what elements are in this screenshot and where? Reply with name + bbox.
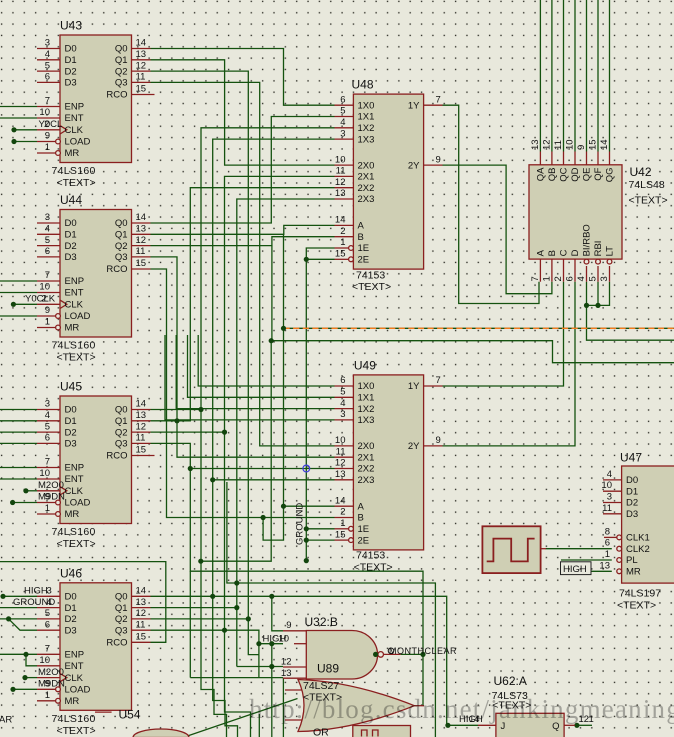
- svg-text:MR: MR: [65, 323, 80, 334]
- svg-text:CLK2: CLK2: [626, 544, 650, 555]
- svg-text:14: 14: [136, 399, 147, 410]
- svg-text:2: 2: [44, 119, 49, 130]
- svg-text:12: 12: [136, 421, 147, 432]
- svg-text:<TEXT>: <TEXT>: [629, 195, 668, 207]
- svg-text:6: 6: [340, 375, 345, 386]
- wire route to right edge: [201, 341, 674, 562]
- svg-text:13: 13: [530, 139, 541, 150]
- node pin9 tap dot: [269, 594, 274, 599]
- wire U48.2Y to U42.B: [443, 165, 552, 294]
- svg-text:6: 6: [605, 538, 610, 549]
- wire U48.2E: [306, 258, 334, 260]
- svg-text:MR: MR: [65, 696, 80, 707]
- svg-text:ENP: ENP: [65, 276, 85, 287]
- svg-text:MONTHCLEAR: MONTHCLEAR: [389, 646, 457, 656]
- svg-text:M2O0: M2O0: [38, 667, 64, 678]
- svg-text:ENP: ENP: [65, 650, 85, 661]
- svg-text:74LS160: 74LS160: [52, 340, 96, 352]
- svg-text:1Y: 1Y: [408, 100, 420, 111]
- wire diagonal to U89: [183, 699, 298, 737]
- svg-text:10: 10: [39, 107, 50, 118]
- wire U46.D3 diagonal: [9, 619, 37, 630]
- wire U42 BI/RBO RBI LT strap: [587, 282, 610, 306]
- node 583 row dot: [234, 580, 239, 585]
- node U45 LOAD dot: [10, 500, 15, 505]
- svg-text:<TEXT>: <TEXT>: [617, 600, 656, 612]
- svg-text:5: 5: [340, 106, 345, 117]
- svg-text:RCO: RCO: [106, 638, 127, 649]
- generator pulse box: [482, 526, 546, 573]
- svg-text:6: 6: [565, 276, 576, 281]
- svg-text:RCO: RCO: [106, 451, 127, 462]
- wire to U49.1X1: [188, 335, 335, 397]
- svg-text:3: 3: [340, 409, 345, 420]
- node U45.Q1 dot: [174, 418, 179, 423]
- svg-text:LOAD: LOAD: [65, 311, 91, 322]
- wire U43.ENP: [0, 106, 37, 108]
- svg-text:MR: MR: [65, 509, 80, 520]
- svg-text:LOAD: LOAD: [65, 498, 91, 509]
- node U46 D2 dot: [6, 616, 11, 621]
- svg-text:3: 3: [47, 586, 52, 597]
- svg-text:D0: D0: [65, 405, 77, 416]
- svg-text:10: 10: [279, 633, 290, 644]
- svg-text:11: 11: [136, 433, 146, 444]
- svg-text:11: 11: [336, 166, 346, 177]
- svg-text:U45: U45: [60, 380, 82, 394]
- svg-text:http://blog.csdn.net/jankingme: http://blog.csdn.net/jankingmeaning: [249, 694, 674, 724]
- wire U43.Q0 to U48.1X0: [151, 49, 335, 106]
- wire U45.D3: [0, 442, 37, 444]
- svg-text:6: 6: [45, 619, 50, 630]
- svg-text:4: 4: [45, 224, 50, 235]
- node U43 CLK dot: [11, 127, 16, 132]
- wire 583 row down: [227, 482, 436, 737]
- svg-text:74153: 74153: [356, 270, 385, 282]
- svg-text:ENP: ENP: [65, 463, 85, 474]
- svg-text:9: 9: [436, 154, 441, 165]
- svg-text:3: 3: [45, 212, 50, 223]
- node U48 2E dot: [304, 257, 309, 262]
- wire U45.D2: [0, 431, 37, 433]
- svg-text:13: 13: [136, 49, 147, 60]
- svg-text:2: 2: [553, 276, 564, 281]
- svg-text:7: 7: [45, 457, 50, 468]
- wire U44.ENT: [0, 292, 37, 294]
- svg-text:D0: D0: [65, 218, 77, 229]
- svg-text:10: 10: [335, 154, 346, 165]
- svg-text:6: 6: [340, 94, 345, 105]
- svg-text:1X0: 1X0: [358, 100, 375, 111]
- wire staircase b: [213, 596, 238, 737]
- wire U48.1Y to U42.A: [443, 105, 540, 303]
- svg-text:15: 15: [136, 84, 147, 95]
- wire U46.D1: [0, 607, 37, 609]
- svg-text:<TEXT>: <TEXT>: [57, 352, 96, 364]
- svg-text:CLK: CLK: [65, 300, 84, 311]
- svg-text:PL: PL: [626, 555, 638, 566]
- wire vertical x190 lower: [189, 571, 191, 677]
- svg-text:D0: D0: [65, 592, 77, 603]
- svg-text:14: 14: [136, 586, 147, 597]
- svg-text:GROUND: GROUND: [295, 503, 306, 545]
- node Q0row tap dot: [210, 594, 215, 599]
- svg-text:U62:A: U62:A: [494, 674, 527, 688]
- svg-text:D3: D3: [65, 625, 77, 636]
- svg-text:<TEXT>: <TEXT>: [57, 177, 96, 189]
- svg-text:Q2: Q2: [115, 427, 128, 438]
- wire U48.1X3 bus vertical: [213, 139, 335, 596]
- wire left edge to U46.RCO: [0, 562, 166, 643]
- svg-text:<TEXT>: <TEXT>: [57, 538, 96, 550]
- node U45.Q0 dot: [198, 407, 203, 412]
- wire U44.ENP: [0, 280, 37, 282]
- svg-text:12: 12: [136, 60, 147, 71]
- svg-text:10: 10: [39, 282, 50, 293]
- svg-text:U54: U54: [119, 708, 141, 722]
- wire U43.Q3 to U49.2X0: [151, 82, 335, 446]
- node U62 J dot: [445, 723, 450, 728]
- svg-text:3: 3: [45, 399, 50, 410]
- wire U45.Q1 to U48.2X2: [151, 188, 335, 421]
- wire U46.ENP: [0, 653, 37, 655]
- node BI dot: [584, 303, 589, 308]
- wire to U49.1X3: [165, 335, 335, 420]
- svg-text:1X3: 1X3: [358, 134, 375, 145]
- wire U46.CLK: [25, 677, 37, 679]
- svg-text:D1: D1: [65, 230, 77, 241]
- node RBI dot: [595, 303, 600, 308]
- node U45.Q2 dot: [222, 430, 227, 435]
- wire U48.1E ground vertical: [306, 248, 334, 561]
- node U46 LOAD dot: [10, 687, 15, 692]
- svg-text:Y0CL: Y0CL: [39, 119, 63, 130]
- svg-text:D1: D1: [626, 486, 638, 497]
- svg-text:D1: D1: [65, 603, 77, 614]
- wire pin13 row from bus: [190, 677, 283, 679]
- wire U49.2Y to U42.D: [443, 282, 576, 446]
- wire U46.LOAD: [13, 688, 37, 690]
- svg-text:7: 7: [45, 96, 50, 107]
- wire U46.D2: [0, 618, 37, 620]
- svg-text:3: 3: [340, 128, 345, 139]
- svg-text:D1: D1: [65, 55, 77, 66]
- svg-text:4: 4: [607, 469, 612, 480]
- svg-text:13: 13: [281, 668, 292, 679]
- wire U48.1X2 bus vertical: [201, 128, 335, 561]
- svg-text:7: 7: [436, 94, 441, 105]
- svg-text:7: 7: [45, 270, 50, 281]
- svg-text:Q3: Q3: [115, 625, 128, 636]
- svg-text:5: 5: [45, 60, 50, 71]
- svg-text:4: 4: [576, 276, 587, 281]
- svg-text:A: A: [358, 221, 365, 232]
- svg-text:2: 2: [340, 507, 345, 518]
- wire MONTHCLEAR stub: [401, 653, 423, 655]
- wire U45.Q2 stub to bus: [151, 431, 225, 433]
- svg-text:74LS160: 74LS160: [52, 713, 96, 725]
- svg-text:10: 10: [39, 655, 50, 666]
- wire U44.Q3 to U49.2X1: [151, 257, 335, 457]
- counter U45 74LS160: [37, 380, 155, 551]
- svg-text:11: 11: [136, 246, 146, 257]
- svg-text:M9DN: M9DN: [38, 492, 65, 503]
- gate U89 OR: [285, 680, 424, 737]
- mux U49 74153: [335, 358, 443, 573]
- wire U43.LOAD: [14, 141, 37, 143]
- svg-text:U46: U46: [60, 566, 82, 580]
- svg-text:<TEXT>: <TEXT>: [57, 725, 96, 737]
- svg-text:LT: LT: [605, 246, 616, 257]
- wire vertical 283.4 low: [282, 678, 284, 737]
- svg-text:1X2: 1X2: [358, 404, 375, 415]
- svg-text:10: 10: [39, 468, 50, 479]
- wire U46.Q2 stub: [151, 618, 249, 620]
- wire BI net to right edge: [587, 305, 674, 340]
- svg-text:ENT: ENT: [65, 113, 84, 124]
- node pin12 junction dot: [269, 664, 274, 669]
- wire staircase a: [201, 561, 227, 737]
- wire U45.CLK: [26, 490, 37, 492]
- wire U43.Q1 to U48.2X0: [151, 60, 335, 165]
- wire vertical 271.9 mid: [271, 246, 273, 341]
- svg-text:D3: D3: [65, 78, 77, 89]
- svg-text:2X1: 2X1: [358, 172, 375, 183]
- svg-text:OR: OR: [313, 727, 329, 737]
- wire U44.CLK: [13, 303, 37, 305]
- svg-text:5: 5: [45, 608, 50, 619]
- svg-text:15: 15: [136, 258, 147, 269]
- svg-text:D3: D3: [65, 439, 77, 450]
- wire pulse to U47.CLK2: [546, 548, 612, 550]
- node U49.2X2 tap dot: [188, 466, 193, 471]
- svg-text:15: 15: [136, 632, 147, 643]
- svg-text:2X0: 2X0: [358, 441, 375, 452]
- svg-text:CLK: CLK: [65, 125, 84, 136]
- svg-text:13: 13: [136, 597, 147, 608]
- wire U47.MR: [591, 570, 612, 572]
- svg-text:2X2: 2X2: [358, 183, 375, 194]
- svg-text:<TEXT>: <TEXT>: [354, 562, 393, 574]
- svg-text:4: 4: [45, 49, 50, 60]
- svg-text:D3: D3: [65, 252, 77, 263]
- svg-text:2Y: 2Y: [408, 441, 420, 452]
- svg-text:D2: D2: [65, 66, 77, 77]
- svg-text:1X1: 1X1: [358, 112, 375, 123]
- svg-text:LOAD: LOAD: [65, 137, 91, 148]
- wire U42 top pins up x7: [540, 0, 609, 152]
- node gate output dot: [373, 652, 378, 657]
- wire U46.ENT strap: [26, 654, 37, 666]
- wire U49.2E: [306, 539, 334, 541]
- svg-text:U44: U44: [60, 193, 82, 207]
- node U45 CLK dot: [23, 488, 28, 493]
- svg-text:3: 3: [45, 38, 50, 49]
- wire U46.D0: [3, 595, 37, 597]
- svg-text:B: B: [358, 513, 364, 524]
- node U46 D0 dot: [0, 594, 5, 599]
- wire U46.Q3 down: [151, 630, 259, 654]
- svg-text:6: 6: [45, 246, 50, 257]
- svg-text:6: 6: [45, 72, 50, 83]
- svg-text:13: 13: [136, 224, 147, 235]
- svg-text:12: 12: [335, 458, 346, 469]
- svg-text:M9DN: M9DN: [38, 679, 65, 690]
- node dashed start dot: [281, 326, 286, 331]
- node U46.Q1 dot: [234, 605, 239, 610]
- node bus 561 dot: [198, 559, 203, 564]
- svg-text:ENT: ENT: [65, 288, 84, 299]
- svg-text:1E: 1E: [358, 524, 370, 535]
- counter U44 74LS160: [25, 193, 151, 364]
- svg-text:12: 12: [136, 608, 147, 619]
- node U49 1E dot: [304, 526, 309, 531]
- svg-text:Q0: Q0: [115, 405, 128, 416]
- node label HIGH U47.MR: [561, 562, 592, 575]
- gate U32:B NAND: [263, 615, 401, 679]
- svg-text:15: 15: [335, 529, 346, 540]
- wire U45.Q0 stub to bus: [151, 409, 202, 411]
- node U46 CLK dot: [22, 675, 27, 680]
- node corner 340 dot: [269, 338, 274, 343]
- svg-text:U43: U43: [60, 19, 82, 33]
- svg-text:11: 11: [553, 140, 564, 150]
- svg-text:ENT: ENT: [65, 474, 84, 485]
- svg-text:1: 1: [45, 142, 50, 153]
- svg-text:<TEXT>: <TEXT>: [352, 281, 391, 293]
- svg-text:1: 1: [605, 549, 610, 560]
- svg-text:2X0: 2X0: [358, 160, 375, 171]
- svg-text:HIGH: HIGH: [563, 564, 587, 575]
- svg-text:13: 13: [136, 410, 147, 421]
- svg-text:CLK: CLK: [65, 486, 84, 497]
- node U49 2E dot: [304, 538, 309, 543]
- svg-text:Q1: Q1: [115, 416, 128, 427]
- svg-text:8: 8: [605, 526, 610, 537]
- svg-text:10: 10: [565, 139, 576, 150]
- svg-text:10: 10: [601, 480, 612, 491]
- svg-text:1: 1: [340, 518, 345, 529]
- wire vertical 259 low: [258, 714, 260, 737]
- svg-text:14: 14: [599, 139, 610, 150]
- wire U47.PL: [561, 559, 612, 561]
- svg-text:A: A: [358, 501, 365, 512]
- svg-text:RBI: RBI: [593, 241, 604, 257]
- wire U45.Q3 to MONTHCLEAR: [151, 443, 424, 705]
- svg-text:4: 4: [47, 597, 52, 608]
- svg-text:U42: U42: [630, 165, 652, 179]
- svg-text:11: 11: [136, 619, 146, 630]
- wire U45.D0: [0, 409, 37, 411]
- svg-text:4: 4: [45, 410, 50, 421]
- svg-text:Q3: Q3: [115, 252, 128, 263]
- svg-text:2X3: 2X3: [358, 194, 375, 205]
- wire HIGH row to U32B pin10: [259, 643, 283, 645]
- wire U43.CLK: [14, 129, 37, 131]
- wire dashed orange highlight line: [284, 327, 674, 329]
- svg-text:BI/RBO: BI/RBO: [582, 224, 593, 256]
- svg-text:Q3: Q3: [115, 78, 128, 89]
- svg-text:11: 11: [602, 503, 612, 514]
- generator small box bottom: [353, 726, 411, 737]
- svg-text:U48: U48: [352, 78, 374, 92]
- svg-text:9: 9: [436, 435, 441, 446]
- wire vertical 271.8 low: [271, 667, 273, 737]
- svg-text:Q0: Q0: [115, 44, 128, 55]
- svg-text:74153: 74153: [356, 550, 385, 562]
- svg-text:C: C: [559, 249, 570, 256]
- svg-text:7: 7: [436, 375, 441, 386]
- wire U49.1Y to U42.C: [443, 282, 564, 386]
- svg-text:QC: QC: [559, 167, 570, 181]
- svg-text:CLK1: CLK1: [626, 533, 650, 544]
- svg-text:74LS197: 74LS197: [619, 588, 661, 600]
- wire U45.D1: [0, 420, 37, 422]
- svg-text:QE: QE: [582, 168, 593, 182]
- node HIGH row dot a: [256, 641, 261, 646]
- svg-text:1X2: 1X2: [358, 123, 375, 134]
- svg-text:5: 5: [45, 235, 50, 246]
- wire to U32B pin12: [271, 644, 273, 667]
- wire to U49.2X2: [190, 468, 334, 470]
- svg-text:1X0: 1X0: [358, 381, 375, 392]
- wire U44.RCO to U49.B: [151, 269, 335, 518]
- node U43 LOAD dot: [11, 139, 16, 144]
- node U46 ENP dot: [23, 652, 28, 657]
- svg-text:2X1: 2X1: [358, 452, 375, 463]
- svg-text:1X3: 1X3: [358, 415, 375, 426]
- wire U44.Q0 to U48.1X1: [151, 117, 335, 224]
- svg-text:Y0CLK: Y0CLK: [25, 294, 56, 305]
- wire U48.2X3 bus vertical: [237, 199, 335, 667]
- svg-text:12: 12: [542, 139, 553, 150]
- svg-text:74LS160: 74LS160: [52, 165, 96, 177]
- svg-text:Q2: Q2: [115, 66, 128, 77]
- svg-text:2: 2: [340, 226, 345, 237]
- svg-text:1: 1: [45, 690, 50, 701]
- svg-text:9: 9: [286, 620, 291, 631]
- svg-text:2E: 2E: [358, 535, 370, 546]
- svg-text:12: 12: [136, 235, 147, 246]
- wire to U32B pin9: [272, 596, 283, 631]
- svg-text:Q3: Q3: [115, 439, 128, 450]
- svg-text:QA: QA: [536, 167, 547, 181]
- svg-text:QD: QD: [570, 167, 581, 181]
- decoder U42 74LS48: [529, 139, 668, 281]
- node U49.A tap dot: [281, 504, 286, 509]
- svg-text:1: 1: [45, 503, 50, 514]
- svg-text:RCO: RCO: [106, 90, 127, 101]
- svg-text:3: 3: [607, 492, 612, 503]
- svg-text:15: 15: [335, 249, 346, 260]
- svg-text:7: 7: [45, 644, 50, 655]
- node 2X3 tap dot: [210, 477, 215, 482]
- svg-text:QG: QG: [605, 168, 616, 183]
- svg-text:11: 11: [136, 72, 146, 83]
- svg-text:5: 5: [588, 276, 599, 281]
- svg-text:15: 15: [136, 445, 147, 456]
- svg-text:MR: MR: [626, 567, 641, 578]
- counter U47 74LS197: [561, 451, 674, 612]
- wire pin12 row from bus: [237, 666, 283, 668]
- svg-text:7: 7: [530, 276, 541, 281]
- svg-text:1: 1: [542, 276, 553, 281]
- svg-text:RCO: RCO: [106, 264, 127, 275]
- wire to U49.2X3: [213, 479, 335, 481]
- svg-text:4: 4: [340, 117, 345, 128]
- wire U43.Q2 bus down to U32B jog: [151, 71, 259, 655]
- gate U89 labels: [303, 662, 342, 704]
